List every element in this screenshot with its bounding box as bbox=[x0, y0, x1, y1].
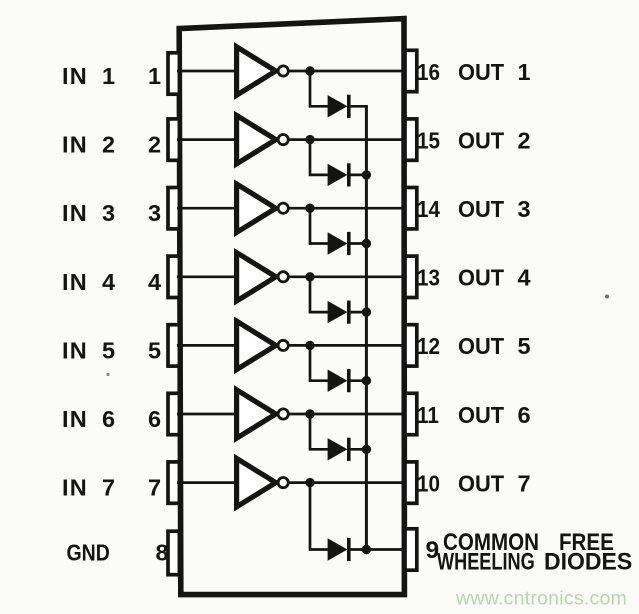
svg-text:DIODES: DIODES bbox=[544, 548, 632, 576]
wire output 2 (bubble to pin 15) bbox=[289, 138, 406, 141]
svg-text:11: 11 bbox=[417, 402, 439, 429]
svg-text:IN: IN bbox=[62, 132, 88, 158]
label IN 5 bbox=[62, 337, 115, 363]
label IN 2 bbox=[62, 132, 115, 158]
wire input 5 (pin 5 to inverter) bbox=[177, 344, 237, 347]
diode D3 bbox=[328, 232, 368, 255]
svg-text:www.cntronics.com: www.cntronics.com bbox=[455, 588, 627, 610]
node junction output 1 bbox=[305, 66, 314, 75]
pin 4 number bbox=[148, 269, 161, 295]
inverter U6 bbox=[237, 390, 289, 438]
svg-text:6: 6 bbox=[102, 406, 115, 432]
svg-text:7: 7 bbox=[148, 475, 161, 501]
pin 14 bump bbox=[405, 188, 417, 229]
label OUT 1 bbox=[458, 58, 531, 85]
svg-text:12: 12 bbox=[417, 333, 440, 360]
pin 8 number bbox=[155, 540, 168, 566]
svg-text:6: 6 bbox=[517, 402, 530, 428]
label OUT 6 bbox=[458, 401, 531, 428]
svg-text:2: 2 bbox=[148, 132, 161, 158]
node junction output 2 bbox=[305, 135, 314, 144]
wire output 4 (bubble to pin 13) bbox=[289, 275, 406, 278]
svg-text:OUT: OUT bbox=[458, 401, 504, 428]
node junction output 5 bbox=[305, 341, 314, 350]
wire input 4 (pin 4 to inverter) bbox=[177, 275, 237, 278]
pin 3 number bbox=[148, 200, 161, 226]
pin 11 number bbox=[417, 402, 439, 429]
svg-text:13: 13 bbox=[417, 264, 440, 291]
svg-text:OUT: OUT bbox=[458, 264, 504, 291]
label COMMON FREE WHEELING DIODES bbox=[437, 528, 632, 575]
inverter U7 bbox=[237, 458, 289, 506]
svg-text:1: 1 bbox=[148, 63, 161, 89]
label IN 3 bbox=[62, 200, 115, 226]
svg-text:IN: IN bbox=[62, 406, 88, 432]
svg-text:14: 14 bbox=[417, 196, 441, 223]
pin 15 number bbox=[417, 127, 440, 154]
pin 9 bump bbox=[405, 529, 417, 570]
diode D7 bbox=[328, 538, 406, 561]
svg-text:3: 3 bbox=[102, 200, 115, 226]
pin 1 bump bbox=[168, 53, 179, 94]
wire junction 6 down to diode D6 bbox=[310, 414, 328, 449]
pin 13 number bbox=[417, 264, 440, 291]
label IN 7 bbox=[62, 475, 115, 501]
svg-text:3: 3 bbox=[148, 200, 161, 226]
wire input 2 (pin 2 to inverter) bbox=[177, 138, 237, 141]
pin 6 number bbox=[148, 406, 161, 432]
svg-text:GND: GND bbox=[67, 539, 110, 566]
wire junction 1 down to diode D1 bbox=[310, 71, 328, 106]
node rail junction D6 bbox=[362, 445, 371, 454]
pin 11 bump bbox=[405, 393, 417, 434]
pin 16 bump bbox=[405, 50, 417, 91]
svg-text:IN: IN bbox=[62, 475, 88, 501]
svg-text:IN: IN bbox=[62, 269, 88, 295]
svg-text:4: 4 bbox=[148, 269, 161, 295]
speck bbox=[605, 295, 609, 299]
wire output 3 (bubble to pin 14) bbox=[289, 207, 406, 210]
wire input 7 (pin 7 to inverter) bbox=[177, 481, 237, 484]
svg-text:5: 5 bbox=[102, 337, 115, 363]
label OUT 4 bbox=[458, 264, 531, 291]
wire output 7 (bubble to pin 10) bbox=[289, 481, 406, 484]
label IN 4 bbox=[62, 269, 115, 295]
wire input 1 (pin 1 to inverter) bbox=[177, 70, 237, 73]
label OUT 3 bbox=[458, 195, 531, 222]
diode D1 bbox=[328, 95, 368, 118]
pin 1 number bbox=[148, 63, 161, 89]
pin 4 bump bbox=[168, 256, 179, 297]
IC body outline bbox=[179, 19, 404, 595]
pin 2 number bbox=[148, 132, 161, 158]
svg-text:8: 8 bbox=[155, 540, 168, 566]
pin 3 bump bbox=[168, 188, 179, 229]
pin 5 number bbox=[148, 337, 161, 363]
svg-text:IN: IN bbox=[62, 63, 88, 89]
svg-text:OUT: OUT bbox=[458, 470, 504, 497]
pin 2 bump bbox=[168, 119, 179, 160]
wire junction 4 down to diode D4 bbox=[310, 277, 328, 312]
diode D2 bbox=[328, 163, 368, 186]
pin 12 bump bbox=[405, 325, 417, 366]
pin 7 number bbox=[148, 475, 161, 501]
pin 6 bump bbox=[168, 393, 179, 434]
node junction output 4 bbox=[305, 272, 314, 281]
pin 14 number bbox=[417, 196, 441, 223]
svg-text:7: 7 bbox=[517, 470, 530, 496]
pin 7 bump bbox=[168, 462, 179, 503]
svg-text:15: 15 bbox=[417, 127, 440, 154]
node junction output 3 bbox=[305, 204, 314, 213]
pin 5 bump bbox=[168, 325, 179, 366]
svg-text:OUT: OUT bbox=[458, 332, 504, 359]
svg-text:IN: IN bbox=[62, 337, 88, 363]
pin 8 bump bbox=[168, 531, 179, 575]
diode D6 bbox=[328, 438, 368, 461]
svg-text:5: 5 bbox=[517, 333, 530, 359]
watermark www.cntronics.com bbox=[455, 588, 627, 610]
pin 16 number bbox=[417, 59, 440, 86]
label GND bbox=[67, 539, 110, 566]
label OUT 7 bbox=[458, 470, 531, 497]
inverter U4 bbox=[237, 253, 289, 301]
svg-text:10: 10 bbox=[417, 470, 440, 497]
node rail junction D3 bbox=[362, 239, 371, 248]
pin 15 bump bbox=[405, 119, 417, 160]
label OUT 5 bbox=[458, 332, 531, 359]
svg-text:3: 3 bbox=[517, 196, 530, 222]
diode D4 bbox=[328, 301, 368, 324]
pin 10 bump bbox=[405, 462, 417, 503]
svg-text:2: 2 bbox=[517, 127, 530, 153]
pin 9 number bbox=[426, 537, 440, 564]
wire junction 2 down to diode D2 bbox=[310, 140, 328, 175]
svg-text:OUT: OUT bbox=[458, 195, 504, 222]
svg-text:5: 5 bbox=[148, 337, 161, 363]
svg-text:4: 4 bbox=[517, 265, 530, 291]
wire junction 7 down to diode D7 bbox=[310, 483, 328, 550]
wire input 6 (pin 6 to inverter) bbox=[177, 413, 237, 416]
wire output 6 (bubble to pin 11) bbox=[289, 413, 406, 416]
svg-text:OUT: OUT bbox=[458, 127, 504, 154]
diode D5 bbox=[328, 369, 368, 392]
svg-text:IN: IN bbox=[62, 200, 88, 226]
inverter U2 bbox=[237, 115, 289, 163]
pin 12 number bbox=[417, 333, 440, 360]
pin 13 bump bbox=[405, 256, 417, 297]
wire output 1 (bubble to pin 16) bbox=[289, 70, 406, 73]
inverter U3 bbox=[237, 184, 289, 232]
node junction output 7 bbox=[305, 478, 314, 487]
svg-text:4: 4 bbox=[102, 269, 115, 295]
wire output 5 (bubble to pin 12) bbox=[289, 344, 406, 347]
inverter U1 bbox=[237, 47, 289, 95]
speck bbox=[106, 373, 109, 376]
label OUT 2 bbox=[458, 127, 531, 154]
label IN 6 bbox=[62, 406, 115, 432]
node rail junction D7 / pin 9 bbox=[362, 545, 371, 554]
svg-text:7: 7 bbox=[102, 475, 115, 501]
pin 10 number bbox=[417, 470, 440, 497]
svg-text:6: 6 bbox=[148, 406, 161, 432]
wire input 3 (pin 3 to inverter) bbox=[177, 207, 237, 210]
svg-text:1: 1 bbox=[102, 63, 115, 89]
wire junction 5 down to diode D5 bbox=[310, 345, 328, 380]
node junction output 6 bbox=[305, 409, 314, 418]
node rail junction D4 bbox=[362, 307, 371, 316]
wire common freewheeling rail to pin 9 bbox=[365, 106, 368, 549]
wire junction 3 down to diode D3 bbox=[310, 208, 328, 243]
svg-text:OUT: OUT bbox=[458, 58, 504, 85]
inverter U5 bbox=[237, 321, 289, 369]
node rail junction D2 bbox=[362, 170, 371, 179]
svg-text:2: 2 bbox=[102, 132, 115, 158]
label IN 1 bbox=[62, 63, 115, 89]
svg-text:16: 16 bbox=[417, 59, 440, 86]
svg-text:WHEELING: WHEELING bbox=[437, 547, 535, 575]
node rail junction D5 bbox=[362, 376, 371, 385]
svg-text:1: 1 bbox=[517, 59, 530, 85]
